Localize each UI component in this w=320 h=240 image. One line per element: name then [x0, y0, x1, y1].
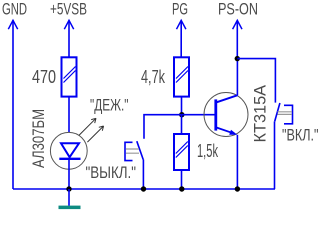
- wire node A to base: [182, 114, 215, 116]
- arrow +5VSB: [64, 20, 73, 29]
- junction dot emitter-rail: [235, 186, 240, 191]
- svg-text:1,5k: 1,5k: [197, 141, 219, 161]
- resistor R3 power slashes: [176, 142, 188, 158]
- resistor R2 power slashes: [176, 67, 188, 83]
- svg-text:4,7k: 4,7k: [141, 67, 166, 87]
- svg-text:"ДЕЖ.": "ДЕЖ.": [90, 96, 129, 115]
- arrow PG: [177, 20, 186, 29]
- wire R2 to node A: [181, 97, 183, 115]
- wire node B to switch SB2: [237, 59, 275, 103]
- wire ground rail: [13, 188, 275, 190]
- arrow GND: [8, 20, 17, 29]
- LED VD1 diode triangle: [61, 143, 79, 157]
- transistor Q1 collector diagonal: [217, 95, 238, 102]
- svg-text:"ВКЛ.": "ВКЛ.": [282, 125, 319, 144]
- svg-text:PG: PG: [172, 0, 188, 19]
- transistor Q1 emitter arrowhead: [229, 130, 237, 135]
- resistor R2 4,7k body: [174, 57, 189, 96]
- LED emission arrow 2: [87, 126, 103, 142]
- node B junction dot: [235, 56, 240, 61]
- resistor R3 1,5k body: [174, 134, 189, 170]
- svg-text:АЛ307БМ: АЛ307БМ: [29, 109, 48, 168]
- ground symbol bar: [59, 206, 81, 210]
- wire SB2 to rail: [274, 121, 276, 189]
- wire node A to R3: [181, 115, 183, 134]
- arrow PS-ON: [233, 20, 242, 29]
- resistor R1 power slashes: [64, 67, 76, 83]
- transistor Q1 base bar: [214, 99, 217, 130]
- LED emission arrow 1: [79, 118, 96, 135]
- pushbutton SB2 actuator bracket: [284, 105, 293, 124]
- junction dot LED-rail: [66, 186, 71, 191]
- junction dot SB1-rail: [141, 186, 146, 191]
- wire PG to R2: [180, 20, 182, 57]
- transistor Q1 circle: [204, 93, 248, 137]
- wire emitter to rail: [236, 135, 238, 189]
- pushbutton SB2 contact diagonal: [275, 103, 280, 121]
- pushbutton SB2 linkage lines: [278, 112, 293, 115]
- pushbutton SB1 contact diagonal: [137, 141, 143, 159]
- LED VD1 circle: [50, 132, 87, 169]
- wire R3 to rail: [181, 170, 183, 189]
- transistor Q1 emitter diagonal: [217, 128, 235, 134]
- wire GND vertical: [12, 20, 14, 189]
- wire PS-ON to node B: [236, 20, 238, 58]
- ground symbol stem: [68, 189, 70, 206]
- resistor R1 470 body: [62, 57, 77, 96]
- junction dot R3-rail: [179, 186, 184, 191]
- wire node A to switch SB1: [144, 115, 182, 139]
- wire +5VSB to R1: [68, 20, 70, 57]
- wire LED to rail: [68, 160, 70, 189]
- node A junction dot: [179, 112, 184, 117]
- svg-text:470: 470: [32, 67, 56, 87]
- wire SB1 to rail: [142, 160, 144, 190]
- LED VD1 cathode bar: [59, 158, 80, 160]
- svg-text:GND: GND: [2, 0, 27, 19]
- wire collector to PS-ON node: [236, 59, 238, 96]
- wire R1 to LED: [68, 97, 70, 133]
- svg-text:КТ315А: КТ315А: [251, 84, 270, 142]
- svg-text:PS-ON: PS-ON: [218, 0, 258, 19]
- pushbutton SB1 actuator bracket: [125, 142, 133, 160]
- svg-text:"ВЫКЛ.": "ВЫКЛ.": [86, 163, 137, 182]
- svg-text:+5VSB: +5VSB: [50, 0, 87, 19]
- pushbutton SB1 linkage lines: [126, 149, 139, 153]
